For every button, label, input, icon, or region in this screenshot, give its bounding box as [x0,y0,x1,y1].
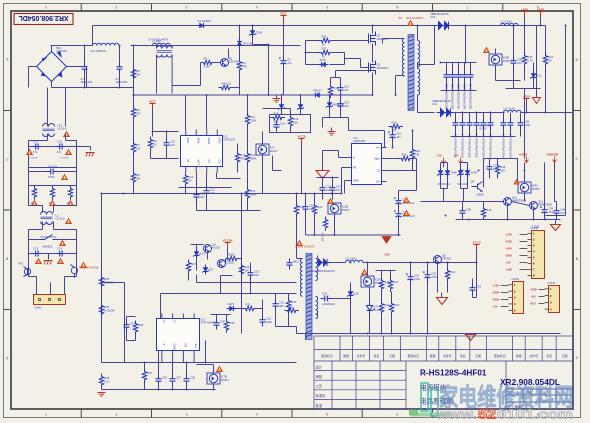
wire [410,284,412,334]
wire neck right [54,200,77,213]
junction [445,215,447,217]
fuse F1 [41,235,57,249]
capacitor C [453,119,459,130]
svg-text:222: 222 [344,104,349,108]
ground sec tri [437,298,448,305]
junction [513,25,515,27]
wire [385,147,387,149]
wire [76,168,78,172]
svg-text:PC817: PC817 [221,378,230,382]
wire [29,167,77,169]
svg-text:IC5A: IC5A [375,278,381,282]
wire [158,386,160,390]
wire [172,85,200,87]
optocoupler IC5A [361,276,384,287]
svg-text:文件号: 文件号 [357,353,366,358]
wire right vertical [565,26,567,113]
svg-text:62K: 62K [293,120,298,124]
wire con8 pin [520,269,528,271]
wire [228,49,230,59]
optocoupler IC2B [328,203,351,214]
capacitor C40 [554,207,566,218]
svg-text:数量: 数量 [430,353,436,358]
svg-text:100p: 100p [524,123,530,127]
wire pin1 ext [161,356,163,363]
wire [216,315,218,319]
svg-text:+12V: +12V [506,233,513,237]
wire [186,363,188,375]
junction [101,193,103,195]
wire [335,71,337,78]
wire [305,194,307,203]
svg-text:C26: C26 [162,376,167,380]
wire [47,88,49,123]
wire [288,312,290,327]
svg-text:4.7K/2W: 4.7K/2W [321,233,323,243]
wire [418,112,435,114]
junction [166,131,168,133]
wire [191,244,204,246]
wire [29,253,77,255]
junction [410,262,412,264]
wire [237,165,239,173]
wire [350,283,352,289]
svg-text:R17: R17 [322,47,327,51]
svg-text:VCC2: VCC2 [297,135,305,139]
capacitor C38 [460,207,472,218]
wire [127,340,136,342]
wire [341,168,343,194]
junction [158,389,160,391]
wire [345,58,361,60]
wire t2 feed [296,235,298,259]
svg-text:R50: R50 [288,305,293,309]
wire [262,132,264,144]
svg-text:1: 1 [45,412,47,416]
svg-text:MMBT3906: MMBT3906 [538,203,552,207]
svg-text:R22: R22 [317,205,322,209]
wire bridge+ [51,46,53,52]
wire bottom bus [297,333,561,335]
svg-text:4148: 4148 [320,58,326,62]
svg-text:FB: FB [353,166,357,170]
junction [239,25,241,27]
junction [341,193,343,195]
warning triangle [217,367,223,372]
junction [152,131,154,133]
wire [440,178,442,189]
wire [330,262,346,264]
svg-text:IC2B: IC2B [342,205,348,209]
wire con2 pin [501,299,509,301]
resistor R15 [271,112,285,124]
wire [197,364,214,366]
svg-text:文件号: 文件号 [529,353,538,358]
warning triangle [32,201,38,206]
wire [213,385,215,390]
warning triangle [81,263,87,268]
wire [28,186,30,200]
wire [196,277,198,283]
wire [127,316,136,318]
wire [360,59,362,68]
wire ic3 bus362 [102,362,297,364]
svg-text:R12: R12 [250,153,255,157]
wire [64,277,66,295]
wire fet2 source [372,73,374,96]
svg-text:GND: GND [506,240,512,244]
wire [556,218,558,220]
wire [503,130,505,137]
svg-text:IC5B: IC5B [503,56,509,60]
svg-text:Z18V: Z18V [256,31,263,35]
wire bank2 gnd [451,136,516,138]
svg-text:1: 1 [45,5,47,9]
svg-text:C28: C28 [190,376,195,380]
capacitor C9 [279,57,292,68]
resistor R14 [235,151,245,165]
wire [496,80,521,82]
svg-text:+5V: +5V [493,305,498,309]
svg-text:R27: R27 [191,262,196,266]
svg-text:47K: 47K [242,64,247,68]
wire pin2 ext [172,356,174,363]
svg-text:CS: CS [377,169,381,173]
svg-text:Z27: Z27 [209,268,214,272]
zener ZD2 [326,100,344,110]
wire [410,263,412,273]
svg-text:275V~: 275V~ [48,175,56,179]
watermark url [435,408,573,422]
wire [513,26,515,57]
wire fb box [484,159,518,188]
junction [427,262,429,264]
wire ic3 feed h [102,282,125,284]
svg-text:R49: R49 [486,208,491,212]
wire [344,53,346,65]
zener ZD1 [249,28,262,38]
svg-text:6: 6 [396,5,398,9]
transistor Q10 [504,195,527,205]
junction [533,219,535,221]
junction [213,389,215,391]
wire [36,277,38,295]
junction [565,112,567,114]
wire [443,189,445,202]
connector CON3 [545,281,560,313]
resistor R32b [286,298,296,312]
wire [330,78,332,84]
junction [398,234,400,236]
svg-text:C12: C12 [210,188,215,192]
svg-text:GND: GND [493,291,499,295]
wire [329,95,331,100]
svg-text:CT: CT [207,160,211,164]
wire [391,315,393,334]
wire q cluster out [197,282,297,284]
junction [524,25,526,27]
wire [470,82,472,91]
wire [314,217,316,236]
wire [290,109,292,115]
wire [384,131,386,148]
capacitor C16 [320,184,332,195]
resistor R48 [495,163,505,177]
bridge rectifier BD1 [37,46,68,81]
wire [317,256,319,259]
diode D3 [319,58,329,67]
junction [314,234,316,236]
wire vcc drop [283,20,285,57]
junction [144,362,146,364]
junction [391,333,393,335]
junction [524,170,526,172]
wire [135,335,137,341]
wire [288,294,290,298]
svg-text:CON1: CON1 [35,306,43,310]
svg-text:R31: R31 [548,55,553,59]
svg-text:5: 5 [326,5,328,9]
wire [446,63,448,71]
wire [506,88,541,90]
wire bus 293 [221,293,297,295]
wire [237,144,239,151]
resistor RV2 [50,186,54,200]
wire [237,258,242,260]
svg-text:681J: 681J [293,260,299,264]
svg-text:R41: R41 [393,280,398,284]
wire [461,188,468,190]
wire con8 pin [520,255,528,257]
wire [239,73,241,88]
wire [322,195,324,200]
wire [92,26,94,46]
wire [48,254,50,260]
svg-text:RL205: RL205 [480,129,487,131]
labels varistors [31,202,72,205]
watermark logo brackets [421,383,438,416]
wire [317,177,339,179]
wire [252,26,254,28]
wire [455,113,457,119]
wire [216,173,218,179]
wire 16V rail [363,262,477,264]
svg-text:C33 PW1000uF/25V: C33 PW1000uF/25V [462,84,466,110]
wire [262,300,264,316]
diode D18 [465,168,477,178]
wire [462,130,464,137]
inductor L1 [153,39,171,45]
connector CON8 [528,226,545,279]
wire rail drop [465,26,467,63]
wire [268,45,270,96]
resistor R3 [237,59,247,73]
warning triangle [328,199,334,204]
junction [446,90,448,92]
svg-text:VCT: VCT [196,160,200,166]
wire cn5vsb drop [554,163,556,202]
svg-text:VCC: VCC [280,12,287,16]
svg-text:C32: C32 [431,272,436,276]
capacitor C17 [330,184,342,195]
svg-text:C27: C27 [176,376,181,380]
resistor R42 [379,301,389,315]
zener D17 [457,168,464,178]
wire [330,95,332,98]
capacitor C7 [56,246,67,256]
wire [206,173,208,187]
wire [369,315,371,334]
junction [241,193,243,195]
wire [469,113,471,119]
capacitor C1 [82,63,88,74]
svg-text:C15: C15 [344,101,349,105]
wire [276,95,278,99]
svg-text:Q3: Q3 [377,63,381,67]
wire con8 pin [520,248,528,250]
junction [268,44,270,46]
svg-text:6: 6 [397,412,399,416]
wire [381,271,383,278]
flag arrow1 [442,158,446,164]
svg-text:标准化: 标准化 [316,393,327,398]
wire [133,120,135,141]
ground primary [273,99,281,103]
svg-text:100p: 100p [266,320,272,324]
wire [29,239,41,241]
row of protection parts [0,0,2,2]
ground secondary main [316,171,329,179]
wire con3 pin [539,303,545,305]
zener ZD7 [278,102,285,112]
thermistor NTC1 [71,265,99,278]
junction [186,362,188,364]
wire con8 pin [520,234,528,236]
wire [239,88,241,96]
svg-text:4148: 4148 [451,171,457,175]
svg-text:CON2: CON2 [512,277,520,281]
wire [398,191,400,197]
table row labels [316,364,327,407]
svg-text:CON8: CON8 [532,225,540,229]
svg-text:1K: 1K [548,58,551,62]
wire [348,118,350,131]
inductor LF1 [93,43,119,45]
wire [461,162,468,164]
wire [441,293,443,298]
svg-text:签名: 签名 [374,353,380,358]
resistor R2 [201,57,215,69]
wire [212,62,221,64]
junction [465,62,467,64]
svg-text:5: 5 [326,412,328,416]
resistor R27 [186,260,196,274]
common-mode choke LF2 [43,124,68,137]
svg-text:PC817: PC817 [503,59,512,63]
svg-text:+16V: +16V [506,268,513,272]
junction [468,219,470,221]
svg-text:签名: 签名 [546,353,552,358]
labels C1C2 [81,78,128,84]
svg-text:C43 PW470uF/16V: C43 PW470uF/16V [474,134,478,158]
wire [392,127,394,131]
svg-text:C42 PW470uF/16V: C42 PW470uF/16V [467,134,471,158]
wire [281,95,283,102]
transistor Q6 [434,253,452,263]
capacitor C3 [32,139,43,154]
junction [440,62,442,64]
wire [158,351,160,375]
green mark [411,413,452,417]
wire [332,178,334,184]
svg-text:S8550: S8550 [477,194,485,197]
junction [247,94,249,96]
wire [250,280,252,294]
wire [317,311,319,316]
svg-text:102: 102 [344,88,349,92]
optocoupler IC8A [518,182,541,193]
wire [156,46,158,49]
resistor R49 [481,206,491,220]
capacitor C28b [184,375,196,386]
wire [331,77,341,79]
wire [467,163,469,168]
svg-text:TIP42C: TIP42C [442,257,451,261]
wire [497,159,499,163]
svg-text:FR107: FR107 [314,88,323,92]
wire [296,194,298,203]
resistor R27b [99,374,110,388]
junction [119,45,121,47]
wire [84,74,86,88]
svg-text:C36: C36 [517,58,522,62]
wire [275,311,277,327]
junction [300,94,302,96]
svg-text:R26: R26 [104,305,109,309]
junction [281,94,283,96]
junction [395,94,397,96]
transformer T1 core [408,35,414,111]
junction [503,112,505,114]
wire [200,63,202,86]
wire [470,63,472,71]
wire tap mid [418,64,435,66]
wire [510,113,512,119]
ground earth2 [44,261,53,265]
junction [490,112,492,114]
svg-text:R5: R5 [136,69,140,73]
junction [392,147,394,149]
diode D16 [445,168,457,178]
wire [290,129,292,133]
resistor R16 [319,35,333,47]
svg-text:更改标记: 更改标记 [321,353,333,358]
svg-text:C14: C14 [344,85,349,89]
resistor R23 vertical with label [321,217,328,243]
table header text [321,353,567,358]
wire [29,146,77,148]
svg-text:数量: 数量 [516,353,522,358]
zener ZD4 [193,249,205,259]
svg-text:DRV: DRV [196,138,200,144]
warning triangle [362,270,368,275]
wire [65,88,67,123]
wire [345,180,347,182]
capacitor C20 [394,210,415,221]
svg-text:222: 222 [254,273,259,277]
wire [272,156,274,171]
wire neck left [29,200,43,213]
